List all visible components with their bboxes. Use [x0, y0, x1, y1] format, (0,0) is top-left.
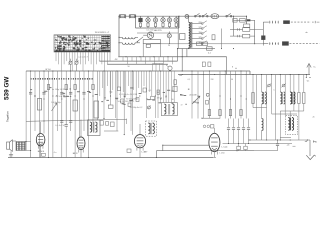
link y107 — [253, 107, 267, 109]
dial lamp La3 — [153, 16, 157, 28]
dial lamp La2 — [146, 16, 150, 28]
switch mains a — [195, 13, 201, 17]
box under 143 b — [244, 144, 247, 151]
label 100 mid — [179, 75, 182, 77]
box mid 4 — [151, 97, 155, 100]
wire — [171, 71, 173, 103]
detector circle — [147, 105, 150, 109]
rail y140 right — [248, 137, 310, 140]
fuse Si2 — [129, 14, 135, 18]
wire — [103, 71, 105, 119]
chassis arrow — [306, 155, 316, 160]
wire — [125, 71, 127, 96]
capacitor left low b — [69, 121, 72, 123]
IF transformer I box — [88, 120, 101, 136]
wire psu drop c — [186, 49, 188, 57]
wire — [252, 75, 254, 108]
wire — [69, 52, 71, 64]
wire — [65, 71, 67, 125]
pot arrow mid — [192, 96, 200, 104]
tube V1 top wire — [40, 122, 42, 131]
capacitor bank output — [227, 119, 250, 144]
svg-text:4 n: 4 n — [54, 152, 57, 154]
svg-text:2x: 2x — [168, 45, 170, 47]
wire — [148, 71, 150, 92]
capacitor left low a — [60, 121, 63, 123]
wire — [106, 52, 108, 64]
extra mid boxes — [109, 87, 208, 104]
rail y57 — [120, 57, 227, 75]
svg-text:-zb: -zb — [287, 144, 290, 146]
resistors upper-left row — [47, 85, 94, 90]
wire psu drop a — [177, 49, 179, 62]
wire — [55, 52, 57, 61]
label above rail — [45, 69, 51, 71]
label row mid e — [130, 107, 143, 109]
wire — [256, 75, 258, 141]
loudspeaker field winding line — [263, 20, 319, 24]
wire — [157, 71, 159, 118]
IFI core — [92, 122, 95, 133]
wire power bottom — [178, 47, 215, 49]
wire — [289, 75, 291, 93]
selector tap 220V — [192, 21, 207, 25]
resistor tall c — [94, 101, 99, 118]
wire — [70, 71, 72, 131]
label nb — [305, 32, 307, 34]
wire — [82, 52, 84, 71]
svg-text:50: 50 — [171, 99, 173, 101]
wire y150 — [156, 150, 254, 151]
wire heater bus left riser — [135, 16, 137, 28]
svg-text:L CL4: L CL4 — [222, 147, 229, 149]
wire — [61, 71, 63, 158]
tube V3 top wire — [139, 124, 141, 132]
dial lamp La1 — [138, 16, 142, 28]
riser y150 — [155, 151, 157, 158]
wire — [235, 71, 237, 119]
right edge marks — [313, 140, 317, 144]
svg-text:W M JKW L+T: W M JKW L+T — [95, 32, 110, 34]
svg-text:125: 125 — [199, 37, 202, 39]
wire — [66, 52, 68, 61]
wire — [65, 100, 67, 124]
label S plus — [313, 67, 316, 69]
wire — [71, 52, 73, 71]
wire — [74, 71, 76, 158]
wire heater bus — [136, 28, 180, 33]
label 2x — [34, 95, 36, 97]
wire — [77, 52, 79, 61]
wire — [154, 71, 156, 118]
terminal branch row1 — [233, 19, 255, 23]
wire — [114, 71, 116, 118]
wire — [96, 71, 98, 120]
resistor tall b — [73, 100, 77, 111]
label row left b — [55, 96, 68, 98]
trimmer right a — [267, 83, 271, 87]
loudspeaker voice coil line — [263, 41, 319, 45]
wire ant top — [12, 140, 26, 143]
wire coil ends — [119, 37, 140, 43]
wire — [261, 75, 263, 93]
wire — [165, 71, 167, 103]
label right mid — [273, 90, 275, 92]
svg-text:4W: 4W — [115, 59, 118, 61]
speaker connector blob — [261, 36, 265, 40]
wire — [96, 52, 98, 64]
coil low a — [262, 119, 264, 141]
bus top labels — [188, 79, 233, 81]
IF output coil hatched — [286, 116, 298, 135]
box under 143 a — [237, 144, 241, 151]
label 50 rails — [127, 66, 129, 68]
svg-text:175: 175 — [199, 27, 202, 29]
rail y143.5 — [223, 143, 293, 145]
wire — [133, 71, 135, 90]
wire — [101, 52, 103, 64]
wire — [25, 71, 27, 142]
wire — [87, 52, 89, 61]
wire — [117, 71, 119, 87]
label 4n bottom — [54, 152, 57, 154]
wire — [79, 52, 81, 64]
wire — [120, 71, 122, 98]
antenna socket — [7, 140, 13, 152]
label row left a — [52, 89, 68, 91]
label right edge — [313, 117, 315, 119]
cap 4n right — [254, 140, 279, 151]
antenna ground — [9, 151, 13, 157]
psu mid box — [212, 35, 215, 40]
wire — [245, 71, 247, 119]
wire y118 right — [202, 117, 220, 119]
selector tap 175V — [192, 26, 207, 30]
label AM P25 — [154, 29, 162, 32]
svg-text:50: 50 — [231, 79, 233, 81]
svg-text:4n 100p 50 2M 4n: 4n 100p 50 2M 4n — [52, 89, 68, 91]
wire — [197, 71, 199, 119]
svg-text:2M: 2M — [211, 79, 214, 81]
wire y131 mid — [104, 130, 118, 132]
label row mid b — [118, 101, 136, 103]
wire — [162, 71, 164, 103]
lamp mains — [185, 15, 189, 19]
tube V4 CL4 — [209, 131, 228, 154]
wire — [261, 104, 263, 119]
label row mid a — [119, 94, 138, 96]
svg-text:150: 150 — [199, 32, 202, 34]
tube V3 EBC3 — [134, 132, 148, 153]
label L250 — [220, 153, 226, 155]
wire — [140, 71, 142, 94]
wire y145 — [163, 144, 209, 146]
pilot lamp box — [143, 38, 160, 43]
tube V4 top wire — [213, 128, 215, 131]
box near V3 left — [127, 149, 131, 152]
heater dropper coil 1 — [122, 37, 135, 39]
wire rail-bus link — [249, 71, 251, 75]
svg-text:50: 50 — [127, 66, 129, 68]
selector tap 150V — [192, 31, 207, 35]
boxes between rails — [202, 62, 211, 67]
resistor tall a — [37, 99, 41, 111]
wire — [274, 75, 276, 141]
svg-text:4n: 4n — [165, 97, 167, 99]
svg-text:1M: 1M — [157, 98, 160, 100]
wire — [240, 71, 242, 119]
dial lamp La5 — [167, 16, 171, 28]
small circle mid — [206, 93, 209, 96]
wire — [126, 119, 128, 124]
label S rail — [232, 66, 237, 69]
antenna coil L1 (hatched) — [16, 142, 26, 151]
wire — [298, 104, 300, 141]
coil pair a — [262, 92, 267, 104]
box mid small — [108, 105, 113, 108]
wire — [98, 52, 100, 61]
wire — [116, 71, 118, 131]
wire — [138, 71, 140, 88]
title Tegefon small — [6, 111, 10, 122]
wire — [266, 75, 268, 93]
wire — [303, 75, 305, 93]
svg-text:100: 100 — [179, 75, 182, 77]
right bus — [178, 74, 310, 75]
svg-text:0,1 2x50: 0,1 2x50 — [146, 30, 153, 32]
IFII core — [169, 104, 170, 115]
terminal branch row3 — [230, 34, 255, 38]
wire — [123, 71, 125, 135]
selector tap 110V — [192, 41, 207, 45]
voltage selector plug — [211, 14, 219, 19]
coupling circle — [166, 65, 172, 71]
resistor right b — [298, 93, 305, 104]
IFI secondary — [95, 122, 97, 132]
wire ant links — [26, 142, 31, 158]
wire — [90, 52, 92, 64]
resistor mid a — [174, 80, 177, 85]
wire psu mid drop — [221, 29, 222, 50]
svg-text:A 0,05M: A 0,05M — [190, 94, 197, 97]
wire — [271, 75, 273, 88]
wire — [219, 71, 221, 119]
wire — [85, 52, 87, 64]
link y111 — [280, 110, 304, 112]
tube V1 ECH4 — [36, 131, 45, 153]
svg-text:50 100p 4n 0,2: 50 100p 4n 0,2 — [130, 107, 143, 109]
wire — [143, 71, 145, 86]
IFII primary — [164, 104, 166, 114]
resistor right a — [252, 93, 254, 104]
wire — [122, 71, 124, 92]
wire heater top — [119, 15, 184, 17]
wire — [60, 52, 62, 71]
wire — [109, 71, 111, 94]
plus terminal — [306, 75, 311, 83]
switch arm — [137, 37, 144, 43]
resistor mid b — [173, 86, 177, 91]
bus terminal left — [233, 16, 235, 36]
heater dropper coil 2 — [122, 43, 135, 45]
wire — [293, 75, 295, 112]
ballast core — [191, 22, 192, 48]
wire — [151, 71, 153, 96]
svg-text:AM P25: AM P25 — [154, 29, 162, 32]
rail y64 — [107, 63, 168, 65]
wire — [104, 71, 106, 100]
wire — [99, 71, 101, 96]
wire — [160, 71, 162, 103]
main rail — [26, 70, 250, 72]
label row left d — [51, 102, 60, 104]
IFII secondary — [172, 104, 174, 114]
wire — [56, 71, 58, 131]
label IFII — [181, 105, 183, 107]
wire — [208, 71, 210, 119]
wire mains top — [184, 15, 247, 17]
resistor power bottom — [207, 47, 213, 55]
IF transformer II box — [162, 103, 178, 116]
capacitors upper-left row — [29, 92, 86, 94]
wire — [203, 71, 205, 119]
wire — [284, 75, 286, 88]
dial lamp La6 — [174, 16, 178, 28]
wire ground drop — [305, 140, 310, 156]
resistor under pilot — [146, 44, 150, 47]
HT arrow — [307, 64, 311, 75]
shielded coil box — [146, 121, 157, 136]
shielded coil winding — [148, 123, 154, 134]
capacitor left low c — [65, 125, 68, 158]
svg-text:L 4B7: L 4B7 — [142, 152, 148, 154]
label row mid d — [126, 99, 139, 101]
box mid 2 — [128, 103, 131, 106]
wire — [74, 52, 76, 64]
AVC line — [26, 119, 127, 125]
wire — [88, 71, 90, 158]
stubs above rail right — [153, 64, 164, 72]
ballast winding — [189, 22, 190, 48]
dial lamp La4 — [161, 16, 165, 28]
selector tap 125V — [192, 36, 207, 40]
wire — [127, 71, 129, 86]
wire — [230, 71, 232, 119]
wire — [52, 71, 54, 158]
pilot lamp P25 — [143, 32, 154, 38]
coil pair c hatched — [290, 92, 295, 104]
wire — [104, 52, 106, 71]
wire — [135, 71, 137, 100]
svg-text:EF 9: EF 9 — [73, 153, 78, 155]
wire — [284, 87, 286, 116]
wire — [110, 71, 112, 105]
tube V2 top wire — [80, 120, 82, 135]
svg-text:Tegefon: Tegefon — [6, 111, 10, 122]
wire — [34, 71, 36, 131]
label 4W — [115, 59, 118, 61]
wire — [92, 71, 94, 131]
fuse Si1 — [119, 14, 125, 18]
wire — [107, 71, 109, 86]
rail stubs — [123, 57, 173, 65]
terminal column — [254, 20, 256, 43]
output line y44 — [150, 42, 263, 46]
wire — [279, 75, 281, 93]
wire — [298, 75, 300, 93]
box mid 3 — [136, 98, 139, 102]
wire ballast bottom — [188, 47, 190, 48]
lamp La7 — [167, 32, 171, 44]
wire — [43, 71, 45, 134]
label row mid c — [190, 94, 197, 97]
wire mains left drop — [177, 16, 179, 48]
terminal branch row2 — [230, 28, 255, 32]
wire — [93, 52, 95, 71]
svg-text:ECH 4: ECH 4 — [38, 151, 45, 153]
switch mains c — [226, 13, 232, 17]
svg-text:b: b — [316, 142, 317, 144]
wire heater bus right riser — [178, 16, 180, 28]
wire — [303, 104, 305, 112]
wire — [63, 52, 65, 64]
wire — [83, 71, 85, 131]
label smudges mid band — [30, 87, 199, 105]
svg-text:100 4n 50p: 100 4n 50p — [51, 102, 60, 104]
wire — [130, 71, 132, 131]
rail y61 — [99, 60, 177, 62]
label heater bus — [146, 30, 153, 32]
svg-text:zb: zb — [313, 117, 315, 119]
wire mains right drop — [244, 16, 250, 27]
wire — [266, 104, 268, 140]
tube V1 cathode box — [42, 153, 46, 156]
pilot box legs — [143, 44, 160, 57]
svg-text:50p: 50p — [109, 92, 112, 94]
tube V2 EF9 — [73, 135, 85, 155]
svg-text:Un: Un — [307, 81, 309, 83]
band switch caption below — [78, 57, 88, 59]
ground bus — [8, 157, 213, 159]
IFI primary — [90, 122, 92, 132]
trimmer right b — [281, 83, 285, 87]
wire — [109, 52, 111, 61]
wire — [279, 111, 281, 140]
svg-text:0,1 100p 4n 50 0,5M: 0,1 100p 4n 50 0,5M — [119, 94, 138, 96]
wire — [79, 71, 81, 137]
band switch caption above — [95, 32, 110, 34]
wire — [112, 71, 114, 90]
caps above V4 — [203, 125, 214, 128]
svg-text:539 GW: 539 GW — [4, 76, 11, 100]
label row left c — [55, 125, 65, 127]
wire — [30, 71, 32, 142]
label under La7 — [168, 45, 170, 47]
svg-text:W 1-6: W 1-6 — [45, 69, 51, 71]
wire — [224, 71, 226, 119]
svg-text:0,1 4n7 50: 0,1 4n7 50 — [55, 125, 65, 127]
contact teeth row — [31, 78, 94, 80]
wire — [48, 71, 50, 158]
riser y145 — [162, 145, 164, 151]
svg-text:0,1: 0,1 — [188, 79, 191, 81]
svg-text:nb: nb — [305, 32, 307, 34]
wire — [132, 71, 134, 135]
wire psu drop b — [181, 49, 183, 71]
svg-text:0,1: 0,1 — [149, 90, 152, 92]
trimmer C x76.5 — [74, 59, 78, 71]
wire — [168, 71, 170, 103]
